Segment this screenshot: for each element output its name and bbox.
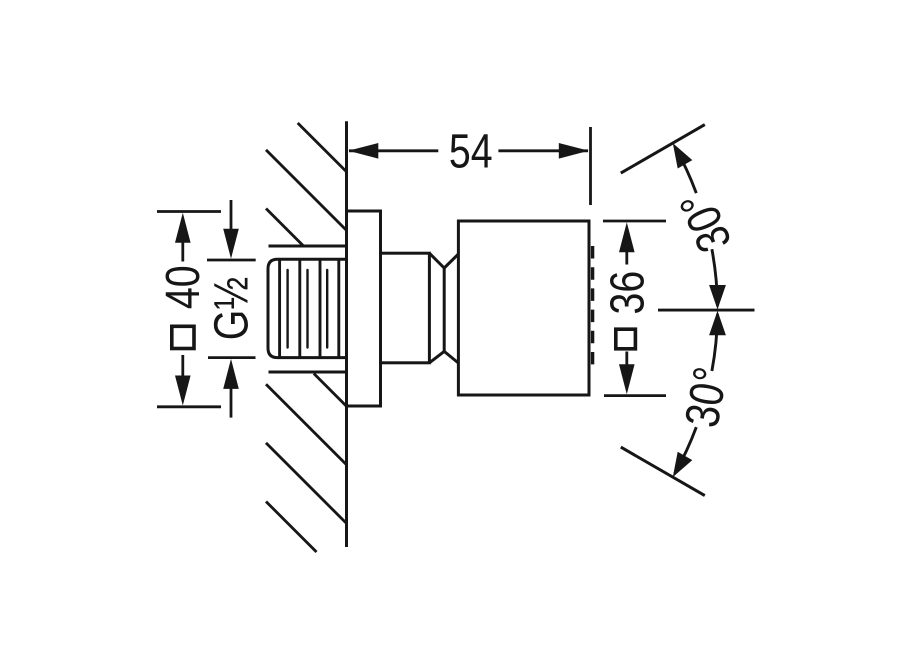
shaft section [381, 253, 430, 363]
lower 30 deg arc dimension [673, 311, 738, 477]
dimension 54 [348, 125, 590, 205]
upper 30 deg arc dimension [670, 143, 743, 309]
neck cone [429, 253, 458, 363]
dimension G1/2 [205, 200, 259, 418]
dimension 40 [156, 212, 221, 407]
wall line [345, 121, 348, 547]
escutcheon plate [347, 211, 381, 406]
upper 30 deg ray [621, 125, 705, 174]
body [458, 221, 589, 395]
svg-text:40: 40 [156, 265, 210, 309]
spray face dashes [591, 246, 594, 364]
lower 30 deg ray [621, 447, 705, 496]
center line [658, 309, 755, 312]
svg-text:36: 36 [601, 271, 655, 315]
wall hatching [266, 123, 347, 552]
svg-text:G½: G½ [205, 277, 259, 340]
dimension 36 [601, 221, 666, 396]
svg-text:54: 54 [449, 125, 493, 179]
svg-text:30°: 30° [675, 363, 738, 431]
threaded nipple [268, 246, 348, 372]
